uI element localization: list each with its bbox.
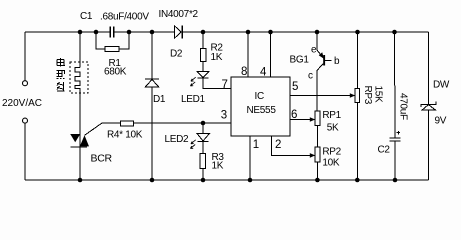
wire bottom bus [25, 179, 429, 181]
label b [334, 56, 340, 67]
wire gate diagonal [85, 123, 103, 135]
svg-text:b: b [334, 56, 340, 67]
pin 6 wire to RP1 wiper [290, 117, 315, 122]
label RP2 10K [322, 158, 340, 169]
resistor R2 [201, 32, 207, 62]
LED2 [197, 123, 210, 142]
label 电热丝 heating wire (drawn glyphs) [57, 58, 66, 91]
label pin 5 [292, 81, 298, 93]
C2 plus sign [397, 131, 400, 134]
diode D2 [175, 26, 183, 39]
node pin 4 [268, 30, 273, 35]
node C2 bottom [393, 178, 398, 183]
node pin 8 [246, 30, 251, 35]
label R3 [212, 152, 225, 163]
svg-text:1K: 1K [212, 161, 224, 172]
label D1 [153, 94, 166, 105]
label pin 8 [241, 66, 247, 78]
svg-text:680K: 680K [104, 67, 127, 78]
label C2 [378, 145, 391, 156]
node R1 right [127, 30, 132, 35]
wire D1 drop [151, 32, 153, 79]
wire DW right branch [428, 32, 430, 104]
wire left AC branch top [24, 32, 26, 81]
label pin 7 [222, 79, 228, 91]
label BG1 [290, 55, 310, 66]
node triac bottom [78, 178, 83, 183]
svg-text:5: 5 [292, 81, 298, 93]
svg-text:10K: 10K [322, 158, 340, 169]
svg-text:.68uF/400V: .68uF/400V [100, 12, 149, 23]
node heater top [78, 30, 83, 35]
label c [308, 70, 313, 81]
svg-text:220V/AC: 220V/AC [2, 98, 42, 109]
wire LED1 to pin7 [203, 78, 231, 88]
svg-text:R4* 10K: R4* 10K [107, 130, 143, 141]
svg-text:5K: 5K [327, 123, 339, 134]
svg-text:2: 2 [275, 139, 281, 151]
node LED2 top [201, 121, 206, 126]
svg-text:NE555: NE555 [247, 105, 277, 116]
label .68uF/400V [100, 12, 149, 23]
LED2 arrows [190, 140, 195, 149]
svg-text:RP1: RP1 [322, 110, 341, 121]
node D1 bottom [150, 178, 155, 183]
svg-text:LED1: LED1 [181, 94, 206, 105]
label RP1 [322, 110, 341, 121]
label IC [255, 91, 264, 102]
label pin 2 [275, 139, 281, 151]
node C2 top [392, 30, 397, 35]
label R1 [109, 58, 122, 69]
svg-text:8: 8 [241, 66, 247, 78]
svg-text:D2: D2 [170, 49, 183, 60]
terminal AC top [23, 81, 28, 86]
resistor R3 [200, 142, 206, 180]
svg-text:e: e [311, 45, 317, 56]
node D1 top [150, 30, 155, 35]
svg-text:LED2: LED2 [165, 134, 190, 145]
wire top bus [25, 31, 429, 33]
label D2 [170, 49, 183, 60]
svg-text:7: 7 [222, 79, 228, 91]
svg-text:3: 3 [221, 110, 227, 122]
resistor R4 [102, 121, 134, 126]
LED1 arrows [190, 77, 195, 86]
potentiometer RP2 [315, 147, 320, 180]
label R3 1K [212, 161, 224, 172]
pin 4 wire [270, 32, 272, 77]
svg-text:4: 4 [260, 67, 267, 79]
label DW [433, 80, 450, 91]
transistor BG1 [317, 32, 332, 111]
svg-text:RP2: RP2 [322, 147, 341, 158]
node pin 1 bottom [248, 178, 253, 183]
svg-text:RP3: RP3 [362, 86, 373, 105]
diode D1 [145, 79, 159, 87]
svg-text:15K: 15K [373, 86, 384, 104]
wire heater to triac [79, 93, 81, 135]
label 220V/AC [2, 98, 42, 109]
IC U1 NE555 box [231, 77, 290, 136]
pin 8 wire [247, 32, 249, 77]
label RP3 15K (rotated) [373, 86, 384, 104]
label RP2 [322, 147, 341, 158]
label LED1 [181, 94, 206, 105]
wire D1 to bottom bus [151, 87, 153, 180]
node R2 top [201, 30, 206, 35]
node RP3 bottom [355, 178, 360, 183]
svg-text:470uF: 470uF [398, 93, 409, 120]
LED1 [197, 62, 209, 79]
node RP3 top [355, 30, 360, 35]
label R2 1K [211, 52, 223, 63]
label RP3 (rotated) [362, 86, 373, 105]
zener diode DW [421, 102, 436, 110]
wire left AC branch bottom [24, 123, 26, 180]
svg-text:DW: DW [433, 80, 450, 91]
wire triac to bottom bus [79, 147, 81, 180]
terminal AC bottom [23, 118, 28, 123]
node BG1 emitter top [315, 30, 320, 35]
triac BCR [70, 135, 89, 147]
svg-text:IC: IC [255, 91, 264, 102]
svg-text:BCR: BCR [91, 153, 113, 165]
label BCR [91, 153, 113, 165]
label IN4007*2 [159, 9, 199, 20]
heater element in dashed box [70, 62, 88, 93]
pin 1 wire [249, 136, 251, 180]
capacitor C1 [110, 27, 115, 38]
label pin 3 [221, 110, 227, 122]
label 680K [104, 67, 127, 78]
capacitor C2 [390, 32, 401, 180]
label LED2 [165, 134, 190, 145]
label pin 1 [253, 139, 259, 151]
pin 5 wire to RP3 wiper [290, 93, 355, 98]
node R1 left [94, 30, 99, 35]
potentiometer RP3 [355, 32, 360, 180]
node RP2 bottom [315, 178, 320, 183]
svg-text:C1: C1 [80, 11, 93, 22]
potentiometer RP1 [315, 111, 320, 147]
label R2 [211, 43, 224, 54]
svg-text:IN4007*2: IN4007*2 [159, 9, 199, 20]
svg-text:1: 1 [253, 139, 259, 151]
pin 3 wire [134, 122, 232, 124]
label NE555 [247, 105, 277, 116]
pin 2 wire to RP2 wiper [272, 136, 316, 158]
wire DW to bottom bus [428, 110, 430, 180]
svg-text:c: c [308, 70, 313, 81]
svg-text:1K: 1K [211, 52, 223, 63]
label pin 6 [291, 109, 297, 121]
label C1 [80, 11, 93, 22]
label RP1 5K [327, 123, 339, 134]
node R3 bottom [201, 178, 206, 183]
label pin 4 [260, 67, 267, 79]
svg-text:9V: 9V [435, 116, 447, 127]
label 9V [435, 116, 447, 127]
resistor R1 loop [96, 32, 129, 52]
svg-text:BG1: BG1 [290, 55, 310, 66]
svg-text:C2: C2 [378, 145, 391, 156]
svg-text:D1: D1 [153, 94, 166, 105]
label e [311, 45, 317, 56]
wire heater drop [79, 32, 81, 68]
svg-text:6: 6 [291, 109, 297, 121]
label 470uF (rotated) [398, 93, 409, 120]
label R4* 10K [107, 130, 143, 141]
